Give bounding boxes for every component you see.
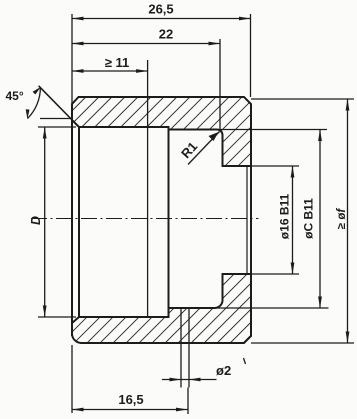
svg-text:16,5: 16,5 (118, 392, 143, 407)
arc arrowhead lower (26, 109, 30, 119)
dimension 16,5 (hole position) (72, 345, 188, 413)
thread depth boundary line (>=11) (147, 60, 149, 317)
vent hole diameter 2, right edge (188, 308, 190, 388)
angle arc (28, 87, 41, 118)
centerline (part axis) (31, 218, 259, 220)
arc arrowhead upper (33, 87, 42, 95)
dimension D (thread bore diameter) (29, 127, 76, 317)
extension line at right face (for 26,5) (250, 14, 252, 97)
bore 16 chamfer circle edge (246, 166, 248, 274)
dimension 26,5 (72, 2, 251, 21)
svg-text:≥ øf: ≥ øf (336, 208, 348, 230)
section cut upper half (hatched wall above bore) (72, 97, 251, 166)
dimension diameter 2 (vent hole) (162, 358, 246, 381)
left end face edge (71, 104, 73, 336)
chamfer extension line (39, 86, 79, 127)
dimension diameter C B11 (215, 130, 329, 309)
svg-text:≥ 11: ≥ 11 (105, 55, 130, 70)
svg-text:22: 22 (159, 27, 173, 42)
svg-text:ø16 B11: ø16 B11 (278, 193, 292, 239)
vent hole diameter 2, left edge (180, 308, 182, 388)
bore D entry chamfer circle edge (78, 127, 80, 317)
dimension 22 (72, 27, 220, 46)
dimension min outer diameter f (251, 99, 354, 343)
svg-text:ø2: ø2 (216, 363, 231, 378)
45 degree chamfer dimension (6, 86, 80, 127)
stray tick mark after label (244, 358, 246, 364)
dimension >=11 (min thread depth) (72, 55, 148, 73)
extension of hole edge down to 16,5 dimension (187, 388, 189, 415)
horizontal reference line (40, 118, 71, 120)
svg-text:øC B11: øC B11 (302, 198, 316, 239)
dimension diameter 16 B11 (247, 166, 299, 274)
section cut lower half (hatched wall below bore) (72, 274, 251, 343)
step face between bore D and bore C (168, 127, 170, 317)
extension line at left face (for 26,5 / 22 / >=11) (71, 14, 73, 104)
right end face edge (250, 104, 252, 336)
svg-text:45°: 45° (6, 89, 24, 103)
svg-text:26,5: 26,5 (148, 2, 173, 17)
svg-text:D: D (29, 216, 43, 225)
fillet radius R1 leader (178, 132, 219, 165)
extension line at bore C end (for 22) (219, 39, 221, 130)
